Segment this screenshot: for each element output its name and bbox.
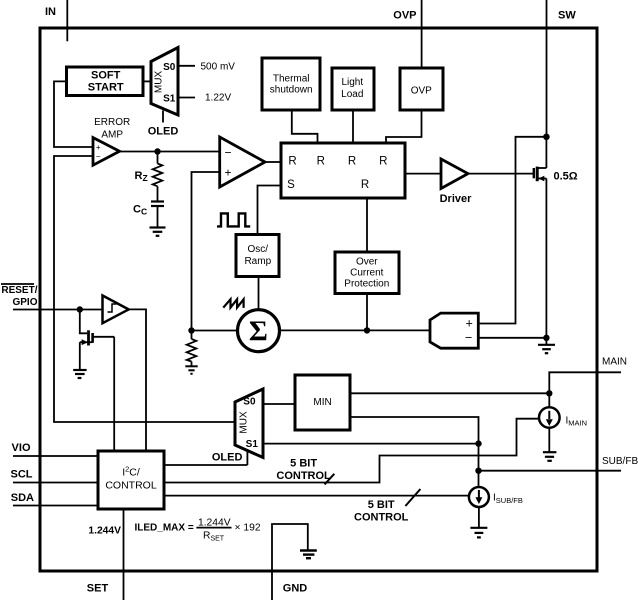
wire soft start to mux — [143, 80, 151, 82]
wire Q2 source to ground — [79, 342, 81, 369]
ground below sense node — [538, 338, 555, 353]
sawtooth symbol — [223, 299, 243, 308]
pin OVP — [393, 0, 421, 68]
current source IMAIN — [539, 393, 587, 428]
svg-text:SCL: SCL — [11, 469, 33, 481]
wire mux2 S0 to MIN — [263, 403, 295, 405]
pin IN — [45, 0, 67, 41]
wire 5 bit control bus to IMAIN — [164, 419, 539, 483]
wire thermal shutdown to latch R2 — [292, 110, 318, 143]
wire Q2 drain to I2C control — [113, 337, 115, 451]
wire summer line to current limit comparator — [279, 329, 431, 331]
op-amp ERROR AMP — [93, 117, 130, 165]
node SUB/FB junction — [475, 468, 481, 474]
svg-text:Thermal: Thermal — [273, 73, 310, 84]
buffer Driver — [440, 159, 473, 205]
node MAIN junction — [546, 390, 552, 396]
latch U3 (SR latch) — [281, 143, 405, 198]
svg-text:Driver: Driver — [440, 193, 473, 205]
node SW sense — [543, 134, 550, 141]
mux1 select stub OLED — [148, 111, 179, 138]
svg-text:× 192: × 192 — [235, 522, 261, 533]
thermal shutdown block — [262, 58, 320, 110]
svg-text:SUB/FB: SUB/FB — [602, 456, 638, 467]
svg-text:CONTROL: CONTROL — [105, 480, 156, 492]
svg-text:0.5Ω: 0.5Ω — [554, 171, 578, 183]
wire MIN output to MAIN node — [350, 392, 549, 394]
ground below slope resistor — [185, 366, 197, 374]
pin SW — [547, 0, 577, 137]
ground below Q2 — [73, 370, 86, 378]
pin GND — [272, 524, 308, 600]
wire latch output to driver — [405, 173, 441, 175]
node OCP junction — [364, 327, 370, 333]
svg-text:MIN: MIN — [313, 397, 331, 408]
svg-text:Osc/: Osc/ — [248, 244, 269, 255]
svg-text:SDA: SDA — [11, 492, 34, 504]
svg-text:Over: Over — [356, 256, 378, 267]
svg-text:OLED: OLED — [148, 126, 179, 138]
svg-text:1.244V: 1.244V — [88, 525, 121, 536]
svg-text:CONTROL: CONTROL — [354, 512, 409, 524]
svg-text:GND: GND — [283, 583, 308, 595]
wire error amp output — [120, 151, 220, 153]
wire MIN second output down to sub node — [350, 417, 479, 444]
svg-text:CONTROL: CONTROL — [276, 470, 331, 482]
svg-text:−: − — [96, 152, 101, 161]
svg-text:−: − — [465, 331, 472, 345]
resistor RZ — [135, 152, 163, 187]
osc/ramp block — [236, 235, 279, 277]
wire Q1 source down to sense node — [545, 179, 547, 338]
wire PWM comparator + input from summer node — [192, 172, 220, 331]
block I2C control U4 — [98, 451, 164, 509]
svg-text:ERROR: ERROR — [94, 117, 130, 128]
svg-text:Protection: Protection — [344, 278, 389, 289]
ground below ISUB/FB — [470, 507, 487, 537]
svg-text:Ramp: Ramp — [244, 256, 271, 267]
wire schmitt output to I2C control — [129, 309, 146, 451]
svg-text:OLED: OLED — [212, 452, 243, 464]
wire PWM comparator output to latch R — [265, 161, 281, 163]
svg-text:5 BIT: 5 BIT — [368, 499, 395, 511]
wire current sense - — [478, 337, 546, 339]
mux MUX1 (reference select) — [151, 48, 178, 116]
mux2 select stub — [246, 451, 248, 465]
wire OCP to summer line — [366, 294, 368, 331]
svg-text:R: R — [348, 156, 356, 168]
node RESET gate junction — [77, 306, 83, 312]
svg-text:S1: S1 — [246, 439, 259, 450]
wire driver to gate — [468, 173, 534, 175]
wire OVP block to latch R4 — [386, 110, 422, 143]
svg-text:1.244V: 1.244V — [198, 517, 231, 528]
buffer schmitt trigger — [103, 296, 129, 324]
svg-text:R: R — [288, 156, 296, 168]
wire sub node down to ISUB — [478, 444, 480, 488]
bus slash 1 — [325, 474, 335, 485]
mux MUX2 (feedback select) — [235, 389, 263, 458]
svg-text:R: R — [361, 179, 369, 191]
wire mux2 S1 to sub node — [263, 443, 479, 445]
svg-text:S0: S0 — [243, 396, 256, 407]
svg-text:Load: Load — [341, 89, 363, 100]
svg-text:R: R — [379, 156, 387, 168]
wire I2C to mux2 select OLED — [164, 452, 247, 465]
svg-text:shutdown: shutdown — [270, 85, 313, 96]
wire 5 bit control bus to ISUB — [164, 495, 469, 497]
wire S1 reference 1.22V — [178, 93, 231, 104]
svg-text:IN: IN — [45, 6, 56, 18]
pin MAIN — [549, 356, 627, 393]
svg-text:MUX: MUX — [238, 411, 249, 434]
wire light load to latch R3 — [352, 110, 354, 143]
wire osc to latch S — [258, 186, 282, 235]
svg-text:S: S — [287, 179, 295, 191]
wire latch bottom R to OCP — [366, 198, 368, 252]
IC boundary box — [40, 28, 597, 571]
transistor Q2 — [80, 330, 114, 345]
svg-text:MAIN: MAIN — [602, 356, 627, 367]
svg-text:R: R — [317, 156, 325, 168]
wire RESET to Q2 gate — [80, 310, 87, 334]
wire soft start feedback to error amp + — [54, 81, 93, 147]
node error amp output — [154, 148, 160, 154]
svg-text:AMP: AMP — [101, 129, 123, 140]
comparator current limit — [430, 313, 478, 348]
wire SW to Q1 drain — [545, 137, 547, 168]
ground below CC — [150, 228, 166, 236]
node S1 junction — [475, 440, 481, 446]
node source sense — [543, 335, 549, 341]
light load block — [332, 68, 374, 110]
wire current sense + — [478, 137, 546, 324]
svg-text:I2C/: I2C/ — [122, 464, 140, 478]
svg-text:SW: SW — [558, 10, 576, 22]
svg-text:+: + — [224, 166, 231, 180]
ground symbol at GND pin — [300, 551, 317, 559]
wire osc to summer — [258, 277, 260, 311]
over current protection block — [335, 252, 399, 294]
wire S0 reference 500 mV — [178, 62, 235, 73]
pin RESET/GPIO — [1, 284, 103, 310]
comparator PWM — [220, 137, 265, 187]
svg-text:Σ: Σ — [249, 316, 268, 348]
wire error amp inverting input from mux2 output — [54, 156, 235, 422]
svg-text:S1: S1 — [163, 93, 176, 104]
node slope resistor junction — [188, 327, 194, 333]
svg-text:+: + — [466, 317, 473, 331]
label 5 bit control 1 — [276, 457, 331, 481]
svg-text:Current: Current — [350, 267, 384, 278]
svg-text:Light: Light — [341, 77, 363, 88]
soft start block U2 — [67, 67, 144, 96]
wire summer input left — [192, 330, 239, 332]
formula ILED_MAX — [135, 517, 261, 542]
svg-text:500 mV: 500 mV — [201, 62, 236, 73]
svg-text:OVP: OVP — [393, 10, 416, 22]
pin SUB/FB — [479, 456, 638, 471]
bus slash 2 — [405, 489, 420, 506]
OVP block — [400, 68, 443, 110]
svg-text:START: START — [88, 82, 124, 94]
pin VIO — [12, 442, 98, 456]
svg-text:−: − — [224, 146, 231, 160]
current source ISUB/FB — [469, 487, 523, 507]
svg-text:ILED_MAX =: ILED_MAX = — [135, 522, 194, 533]
ground below IMAIN — [543, 428, 557, 461]
svg-text:MUX: MUX — [154, 71, 165, 94]
resistor slope compensation — [187, 331, 197, 366]
label 5 bit control 2 — [354, 499, 409, 523]
block MIN — [295, 375, 350, 430]
svg-text:5 BIT: 5 BIT — [290, 457, 317, 469]
svg-text:SET: SET — [87, 583, 109, 595]
svg-text:SOFT: SOFT — [91, 70, 121, 82]
svg-text:1.22V: 1.22V — [205, 93, 231, 104]
capacitor CC — [133, 186, 164, 227]
pin SCL — [11, 469, 99, 483]
svg-text:S0: S0 — [163, 62, 176, 73]
svg-text:+: + — [96, 143, 101, 152]
svg-text:OVP: OVP — [411, 86, 432, 97]
summer sigma — [238, 310, 280, 352]
svg-text:GPIO: GPIO — [12, 297, 37, 308]
svg-text:VIO: VIO — [12, 442, 31, 454]
pin SET — [87, 509, 124, 600]
svg-text:RESET/: RESET/ — [1, 285, 37, 296]
square wave symbol — [217, 213, 250, 226]
pin SDA — [11, 492, 98, 506]
transistor Q1 (power NMOS 0.5ohm) — [534, 167, 578, 183]
